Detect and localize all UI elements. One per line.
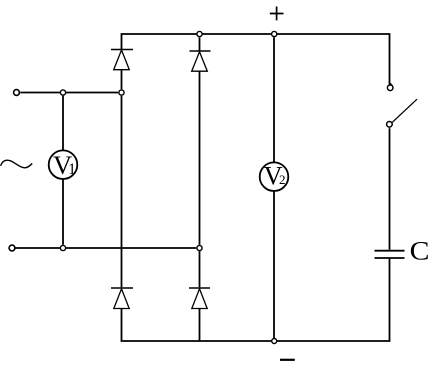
svg-text:C: C	[410, 237, 430, 266]
svg-text:2: 2	[279, 172, 286, 187]
svg-text:1: 1	[68, 161, 76, 178]
